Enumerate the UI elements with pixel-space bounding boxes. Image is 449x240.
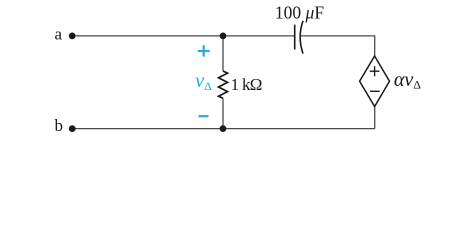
wire: bottom from node b to bottom-right corner bbox=[72, 128, 375, 130]
dependent source U1 diamond bbox=[360, 56, 390, 107]
svg-text:αvΔ: αvΔ bbox=[394, 69, 421, 92]
wire: right branch below source down to bottom wire bbox=[374, 106, 376, 128]
capacitor C left (straight) plate bbox=[294, 25, 296, 50]
node b terminal dot bbox=[69, 125, 76, 132]
svg-text:a: a bbox=[54, 25, 62, 44]
wire: middle branch lower lead bbox=[222, 98, 224, 128]
wire: top from node a to capacitor left plate bbox=[72, 35, 295, 37]
svg-text:b: b bbox=[55, 116, 64, 135]
capacitor C right (curved) plate bbox=[300, 21, 303, 54]
dependent source minus sign bbox=[370, 90, 380, 92]
svg-text:100 μF: 100 μF bbox=[275, 2, 324, 22]
wire: top from capacitor to top-right corner and down to source bbox=[300, 36, 374, 56]
svg-text:vΔ: vΔ bbox=[195, 70, 212, 93]
junction dot bottom of resistor branch bbox=[220, 125, 227, 132]
svg-text:1 kΩ: 1 kΩ bbox=[231, 75, 262, 94]
node a terminal dot bbox=[69, 33, 76, 40]
wire: middle branch upper lead bbox=[222, 36, 224, 71]
dependent source plus sign bbox=[370, 66, 380, 76]
polarity plus for v-delta (cyan) bbox=[198, 45, 210, 56]
polarity minus for v-delta (cyan) bbox=[199, 115, 209, 117]
resistor R 1 kOhm zigzag bbox=[219, 71, 228, 98]
junction dot top of resistor branch bbox=[220, 33, 227, 40]
